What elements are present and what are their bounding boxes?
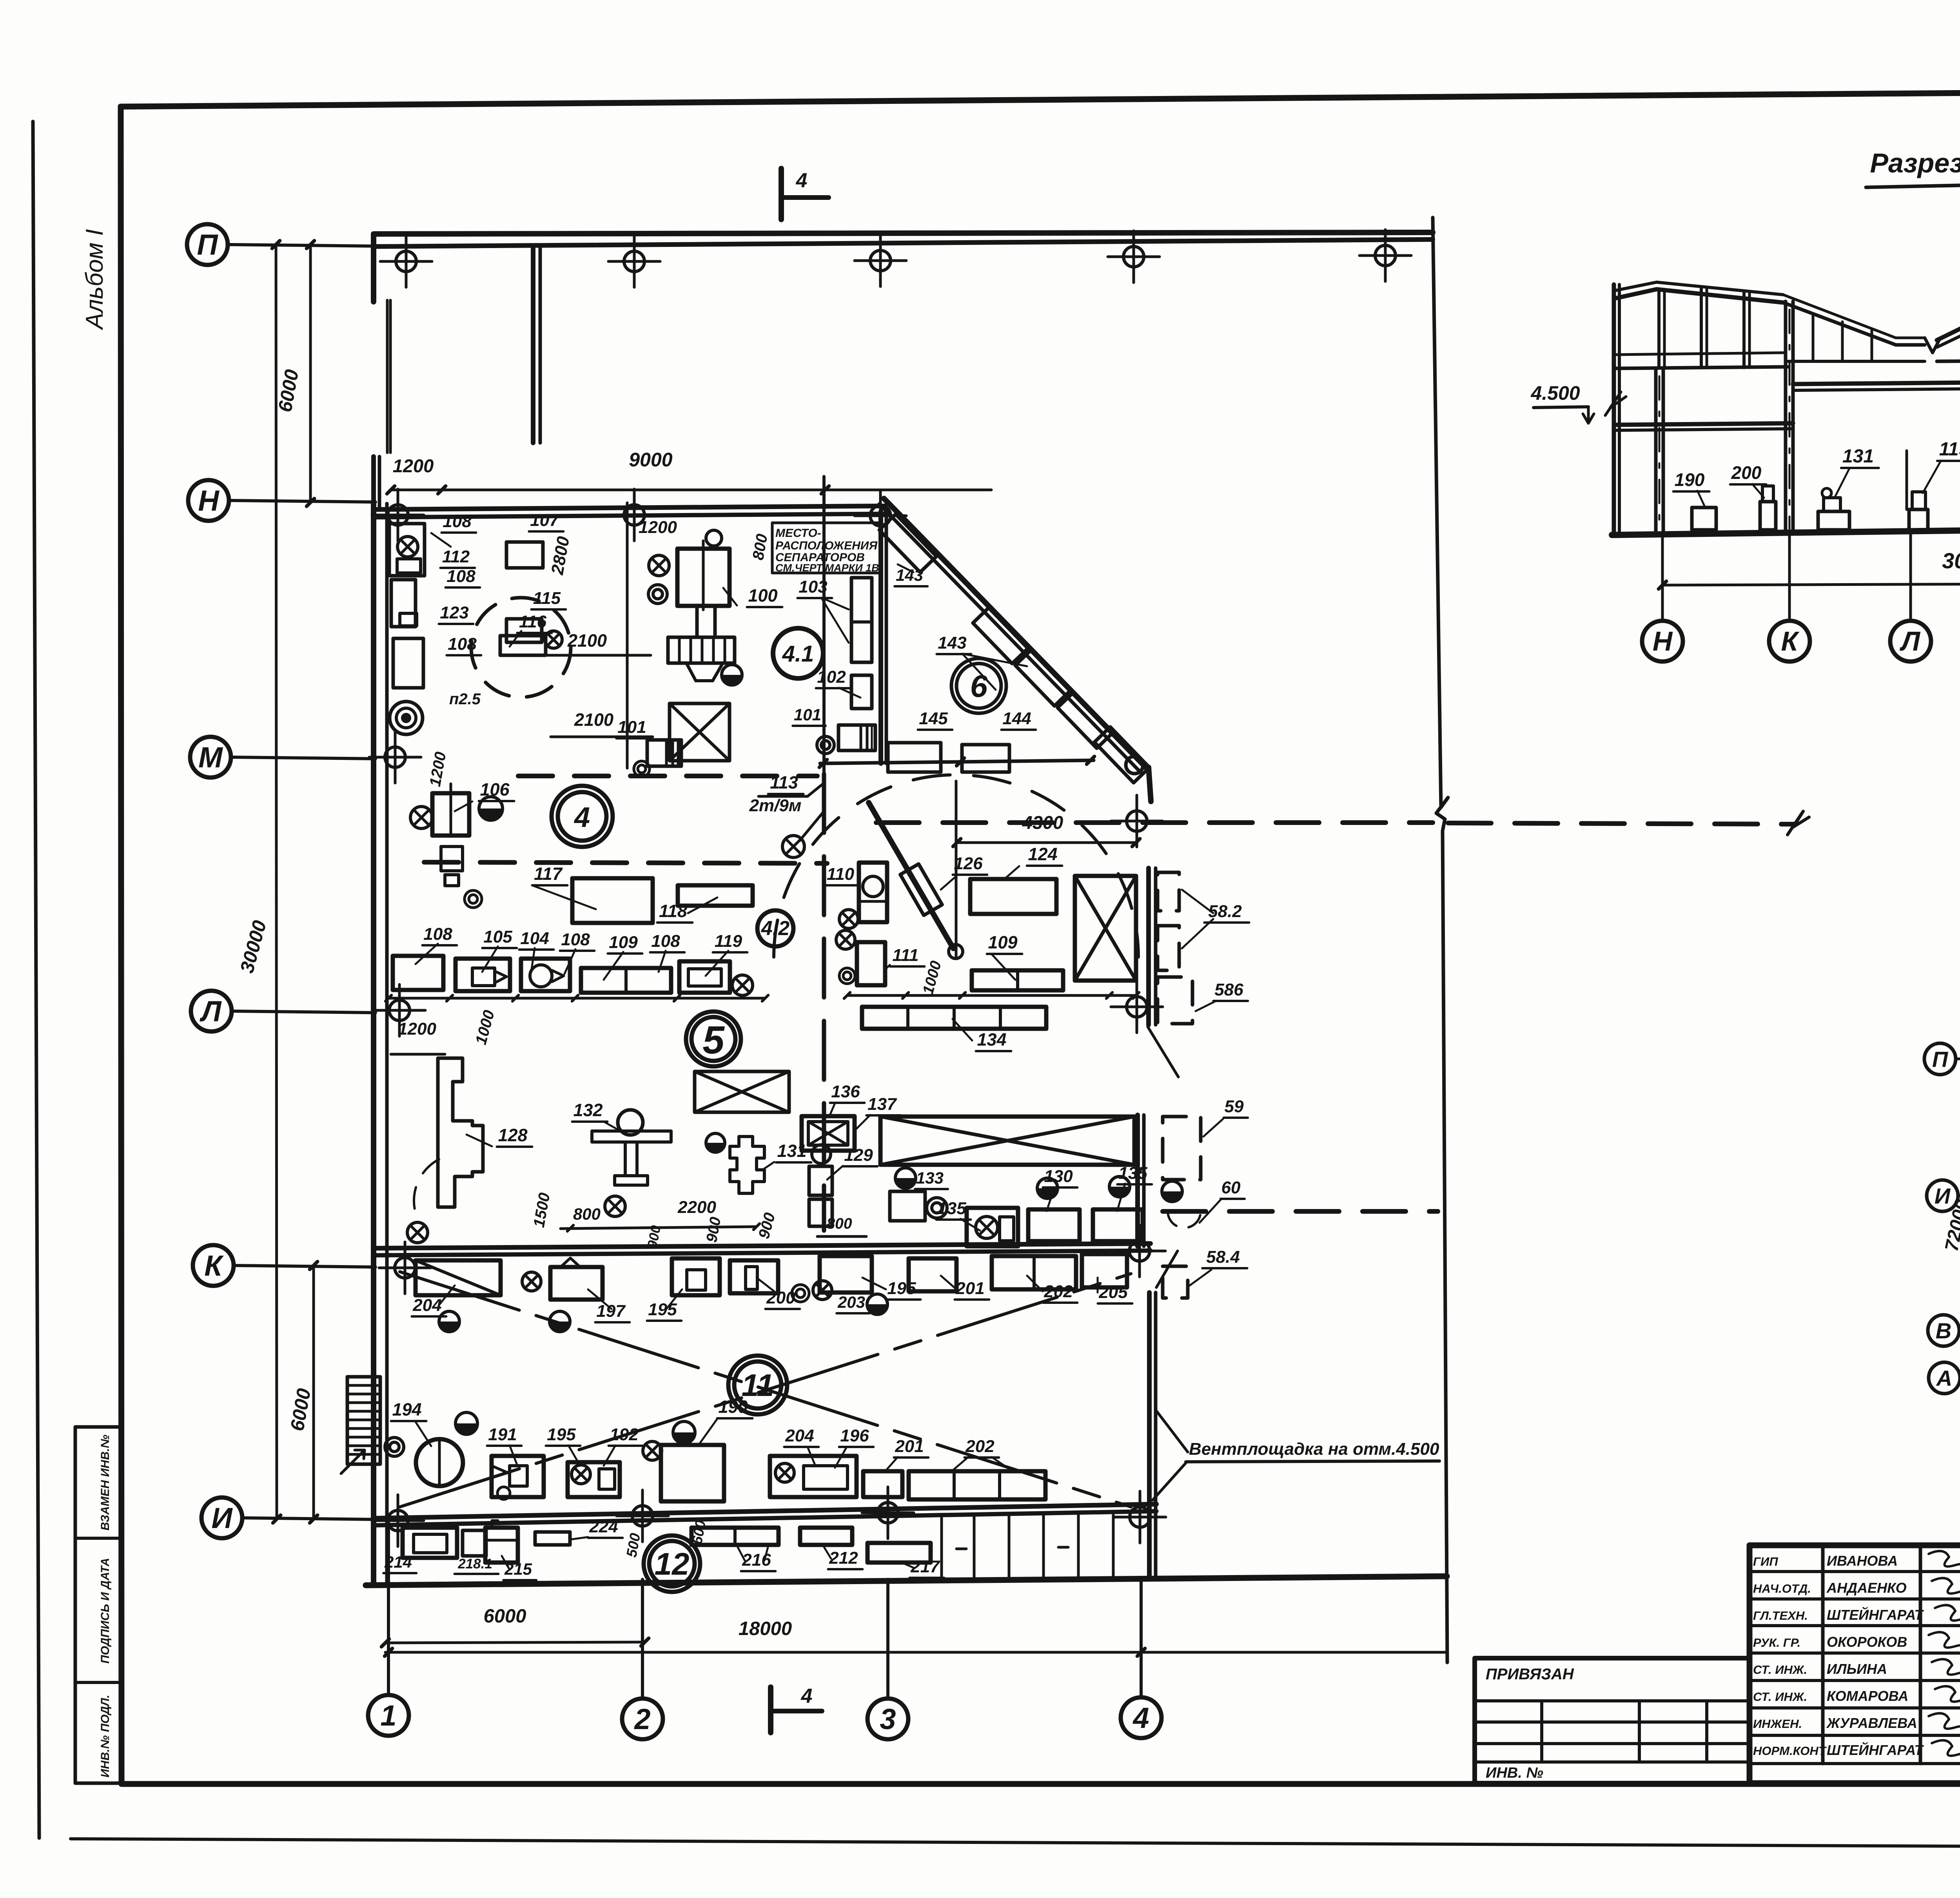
svg-text:135: 135 <box>937 1199 966 1218</box>
half circle mark near 131 <box>706 1133 725 1152</box>
svg-text:Альбом I: Альбом I <box>81 229 108 330</box>
svg-text:И: И <box>1935 1184 1951 1208</box>
svg-text:58.4: 58.4 <box>1206 1247 1240 1267</box>
equipment 215 <box>485 1528 518 1563</box>
svg-text:192: 192 <box>610 1425 639 1444</box>
svg-text:60: 60 <box>1221 1178 1241 1197</box>
frame left border <box>121 107 122 1784</box>
bottom fold line <box>71 1839 1960 1848</box>
svg-text:110: 110 <box>827 865 855 884</box>
vent leader 2 <box>1156 1411 1188 1452</box>
svg-text:109: 109 <box>988 932 1017 952</box>
section equipment 200 <box>1760 502 1776 530</box>
wall left outer upper <box>371 234 376 302</box>
scheme axis circle V <box>1928 1315 1959 1346</box>
equipment row 108 105 104 109 119 <box>393 956 443 990</box>
svg-text:101: 101 <box>794 705 821 724</box>
grid cross <box>1127 811 1147 831</box>
section roof left mullions <box>1657 290 1661 368</box>
svg-text:586: 586 <box>1214 980 1243 999</box>
grid cross P row <box>1123 247 1144 267</box>
svg-text:118: 118 <box>659 901 687 921</box>
wall left thin middle b <box>389 300 392 453</box>
svg-text:2200: 2200 <box>677 1198 716 1217</box>
page outer-left edge line <box>33 121 39 1838</box>
svg-text:ВЗАМЕН ИНВ.№: ВЗАМЕН ИНВ.№ <box>99 1435 112 1530</box>
grid cross P row <box>624 251 644 272</box>
hatched rect on chamfer 143 <box>1058 692 1112 748</box>
svg-text:А: А <box>1936 1366 1952 1390</box>
svg-text:18000: 18000 <box>739 1618 792 1639</box>
break mark on M extension <box>1788 811 1809 835</box>
grid cross <box>632 1506 653 1526</box>
equipment 134 <box>862 1007 1046 1029</box>
svg-text:4: 4 <box>573 802 590 833</box>
separator rect 102 <box>851 675 872 709</box>
wall right segment L-K <box>1135 1115 1140 1246</box>
equipment 201a <box>909 1258 956 1291</box>
dashed rect 58.2a <box>1158 872 1179 911</box>
section column N left <box>1654 369 1658 533</box>
svg-text:190: 190 <box>718 1397 748 1417</box>
room circle 11 <box>728 1356 787 1414</box>
machine 100 marks <box>649 555 669 576</box>
svg-text:1200: 1200 <box>639 518 677 537</box>
section dim 30000 <box>1662 583 1960 585</box>
grid cross P row <box>1375 245 1396 266</box>
room circle 4.1 <box>773 628 823 678</box>
axis line Л <box>232 1011 376 1013</box>
svg-text:4.500: 4.500 <box>1530 382 1580 404</box>
svg-text:П: П <box>197 228 218 261</box>
svg-text:6: 6 <box>970 669 988 703</box>
svg-text:195: 195 <box>648 1300 677 1319</box>
dashed line M extension <box>876 820 1433 825</box>
svg-text:108: 108 <box>561 930 590 949</box>
scheme axis leaders <box>1956 1057 1960 1059</box>
wall top inner <box>374 239 1433 247</box>
svg-text:РУК. ГР.: РУК. ГР. <box>1753 1636 1800 1650</box>
axis circle К <box>193 1245 234 1286</box>
axis circle Л <box>191 991 232 1031</box>
grid cross P row <box>396 251 416 272</box>
equipment 195b <box>820 1256 872 1293</box>
svg-text:МЕСТО-: МЕСТО- <box>775 527 821 540</box>
svg-text:108: 108 <box>443 512 472 531</box>
scheme axis circle A <box>1929 1362 1960 1394</box>
svg-text:201: 201 <box>895 1437 924 1456</box>
xbox long L-K <box>880 1117 1134 1165</box>
svg-text:136: 136 <box>831 1082 860 1101</box>
svg-text:131: 131 <box>1842 446 1874 467</box>
axis circle М <box>190 737 231 778</box>
grid cross <box>388 1510 408 1531</box>
wall left thin middle a <box>386 300 389 453</box>
wash machine 135b <box>1093 1209 1143 1241</box>
equipment 116 rect <box>500 636 546 655</box>
section roof left bottom chord <box>1614 367 1788 368</box>
cut line right <box>1433 218 1448 1662</box>
svg-text:102: 102 <box>817 667 846 687</box>
dashed line y3091 <box>1163 1209 1438 1214</box>
svg-text:134: 134 <box>977 1030 1006 1050</box>
top dim line 1200-9000 <box>391 489 991 491</box>
svg-text:Л: Л <box>1899 626 1921 656</box>
section roof right arch top chord <box>1937 279 1960 340</box>
equipment 123 cabinet <box>391 580 416 627</box>
equipment 202b <box>909 1471 1045 1499</box>
svg-text:КОМАРОВА: КОМАРОВА <box>1827 1688 1908 1704</box>
xbox under 100 <box>670 703 730 761</box>
equipment 132 balancer <box>618 1110 643 1135</box>
svg-text:ИВАНОВА: ИВАНОВА <box>1827 1553 1898 1569</box>
grid cross N row <box>388 505 408 525</box>
svg-text:107: 107 <box>530 511 560 530</box>
dashed arc near 128 <box>414 1159 439 1209</box>
hatched rect on chamfer 143 <box>1015 650 1070 706</box>
dashed rect 58.4 <box>1163 1266 1188 1298</box>
svg-text:В: В <box>1936 1318 1951 1343</box>
svg-text:ИЛЬИНА: ИЛЬИНА <box>1827 1661 1887 1677</box>
svg-text:108: 108 <box>651 932 680 951</box>
svg-text:12: 12 <box>655 1546 690 1581</box>
svg-text:И: И <box>211 1502 233 1534</box>
svg-text:123: 123 <box>440 603 468 622</box>
scheme axis circle P <box>1924 1043 1956 1075</box>
frame bottom border <box>122 1781 1960 1787</box>
equipment 212 <box>800 1528 852 1545</box>
axis line 4 <box>1140 1577 1143 1697</box>
bottom dim line 6000 <box>385 1642 645 1643</box>
window mullions bottom right <box>940 1515 943 1578</box>
vertical dim 4300 reference <box>955 781 958 957</box>
machine 100 funnel <box>686 663 723 681</box>
svg-text:2: 2 <box>633 1703 650 1735</box>
hatched rect on chamfer 143a <box>879 514 936 572</box>
machine 100 comb base <box>668 637 735 663</box>
equipment 190 <box>661 1445 724 1501</box>
svg-text:119: 119 <box>1939 439 1960 460</box>
section roof left block top chord <box>1614 289 1783 303</box>
section break mark left <box>1605 392 1626 415</box>
equipment 217 <box>867 1543 931 1563</box>
axis circle Н <box>188 480 229 521</box>
svg-text:800: 800 <box>573 1205 601 1223</box>
svg-text:214: 214 <box>384 1553 412 1571</box>
dim line under row <box>388 997 765 1000</box>
svg-text:АНДАЕНКО: АНДАЕНКО <box>1826 1580 1907 1596</box>
svg-text:204: 204 <box>412 1296 441 1315</box>
svg-text:ШТЕЙНГАРАТ: ШТЕЙНГАРАТ <box>1827 1606 1924 1623</box>
wall left outer lower <box>371 504 376 1585</box>
svg-text:59: 59 <box>1225 1097 1244 1116</box>
svg-text:3: 3 <box>880 1703 896 1735</box>
section equipment 119 <box>1909 509 1928 530</box>
svg-text:143: 143 <box>938 633 966 653</box>
wall chamfer inner <box>879 504 1142 774</box>
svg-text:1: 1 <box>380 1699 396 1732</box>
svg-text:Н: Н <box>198 484 220 517</box>
chamfer end circle <box>1126 756 1143 774</box>
svg-text:П: П <box>1932 1047 1949 1071</box>
section mezzanine floor 4.500 <box>1614 423 1793 425</box>
axis circle 4 <box>1121 1697 1161 1738</box>
grid cross N row <box>870 506 891 526</box>
svg-text:ЖУРАВЛЕВА: ЖУРАВЛЕВА <box>1826 1715 1917 1731</box>
room circle 12 <box>644 1535 700 1592</box>
svg-text:106: 106 <box>480 780 510 799</box>
svg-text:202: 202 <box>1044 1282 1073 1301</box>
svg-text:ИНЖЕН.: ИНЖЕН. <box>1753 1717 1802 1731</box>
svg-text:ПРИВЯЗАН: ПРИВЯЗАН <box>1486 1666 1574 1683</box>
machine 100 head <box>677 549 730 606</box>
svg-text:п2.5: п2.5 <box>449 691 481 708</box>
axis line 1 <box>387 1523 390 1695</box>
section equipment 190 <box>1692 508 1716 530</box>
section crane beam <box>1793 381 1960 384</box>
titleblock names column lines <box>1821 1545 1825 1764</box>
axis circle 3 <box>867 1699 908 1739</box>
axis line Н <box>229 500 376 502</box>
wall top outer <box>374 232 1433 234</box>
svg-text:135: 135 <box>1118 1164 1147 1183</box>
axis line И <box>242 1518 376 1519</box>
svg-text:195: 195 <box>547 1425 576 1444</box>
dim 4300 <box>957 841 1136 844</box>
section axis lines and circles <box>1661 534 1664 621</box>
floor drain rings <box>390 702 423 734</box>
section mark top <box>779 169 784 219</box>
equipment 136 box <box>802 1116 855 1151</box>
equipment 107 <box>506 542 543 568</box>
vertical dim line 30000 <box>276 245 277 1519</box>
svg-text:Разрез 4-4: Разрез 4-4 <box>1870 148 1960 178</box>
svg-text:197: 197 <box>596 1302 626 1321</box>
equipment 201b <box>863 1471 902 1497</box>
equipment 224 <box>535 1532 570 1545</box>
svg-text:201: 201 <box>955 1279 984 1298</box>
monorail end mark <box>782 836 804 857</box>
axis line М <box>231 757 376 759</box>
text box mesto raspolozheniya <box>772 523 880 573</box>
grid cross P row <box>870 250 891 271</box>
axis line 2 <box>641 1579 644 1699</box>
grid cross <box>878 1503 898 1523</box>
partition thin line room2 <box>626 503 629 768</box>
vent leader 1 <box>1152 1463 1186 1500</box>
jack 126 arm <box>869 803 953 948</box>
svg-text:1200: 1200 <box>398 1019 436 1039</box>
wash machine 135a <box>967 1208 1018 1246</box>
room circle 4.2 <box>757 910 793 946</box>
room 4.1 bottom line <box>820 760 1094 763</box>
equipment 216 <box>691 1528 779 1545</box>
dashed rect 586 <box>1158 977 1192 1024</box>
room circle 5 <box>686 1012 741 1066</box>
svg-text:4.1: 4.1 <box>782 641 814 667</box>
bottom dim line 18000 <box>385 1651 1447 1654</box>
svg-text:202: 202 <box>965 1437 995 1456</box>
equipment 115 <box>506 619 542 642</box>
svg-text:190: 190 <box>1675 470 1705 490</box>
svg-text:117: 117 <box>534 864 563 884</box>
vertical dim line 6000 P-N <box>309 245 312 502</box>
svg-text:204: 204 <box>785 1426 814 1445</box>
wall chamfer outer <box>884 499 1147 768</box>
svg-text:800: 800 <box>826 1215 852 1232</box>
svg-text:200: 200 <box>1731 462 1762 483</box>
inventory stamp box <box>75 1427 122 1783</box>
wall left inner lower <box>385 504 389 1583</box>
wall axis I <box>374 1504 1156 1518</box>
room circle 6 <box>951 658 1006 713</box>
equipment 194 tank <box>416 1439 463 1486</box>
svg-text:191: 191 <box>488 1425 517 1444</box>
equipment 117 <box>572 878 653 923</box>
svg-text:М: М <box>198 741 223 774</box>
svg-text:4: 4 <box>1132 1702 1149 1734</box>
svg-text:111: 111 <box>893 946 919 965</box>
dashed line y2200 <box>424 862 827 863</box>
equipment 118 <box>678 885 753 906</box>
leader lines right wall <box>1148 1027 1178 1077</box>
axis line П <box>228 245 376 246</box>
staircase <box>347 1377 380 1464</box>
svg-text:108: 108 <box>423 925 452 944</box>
grid cross <box>1129 1241 1150 1261</box>
equipment 129 <box>809 1166 832 1195</box>
axis circle П <box>187 224 228 265</box>
equipment 108 cabinet <box>393 638 423 688</box>
grid cross <box>395 1258 415 1278</box>
equipment 145 <box>888 743 941 772</box>
svg-text:128: 128 <box>498 1125 527 1145</box>
grid cross <box>385 747 405 767</box>
section ground line <box>1612 525 1960 535</box>
svg-text:К: К <box>204 1249 224 1282</box>
svg-text:224: 224 <box>589 1517 618 1536</box>
svg-text:144: 144 <box>1002 709 1031 728</box>
equipment 200 <box>730 1260 778 1293</box>
machine 100 stem <box>697 606 715 637</box>
svg-text:30000: 30000 <box>1942 548 1960 573</box>
svg-text:203: 203 <box>837 1293 865 1311</box>
wall axis K <box>374 1244 1151 1248</box>
equipment 203 marks <box>792 1285 809 1302</box>
equipment 197 <box>550 1267 603 1300</box>
svg-text:101: 101 <box>617 718 646 737</box>
axis line 3 <box>886 1579 889 1699</box>
equipment 133 <box>890 1191 925 1221</box>
vertical dim line 6000 K-I <box>312 1265 315 1519</box>
equipment 101 <box>647 740 681 766</box>
svg-text:2100: 2100 <box>567 631 607 651</box>
svg-text:ИНВ.№ ПОДЛ.: ИНВ.№ ПОДЛ. <box>99 1695 112 1777</box>
grid cross N row <box>624 505 644 525</box>
privyazan grid <box>1475 1699 1749 1702</box>
xbox right M-L <box>1075 876 1136 981</box>
svg-text:103: 103 <box>799 577 827 596</box>
svg-text:4.2: 4.2 <box>761 917 789 940</box>
svg-text:133: 133 <box>916 1169 944 1187</box>
equipment 144 <box>962 745 1009 772</box>
svg-text:5: 5 <box>702 1018 725 1062</box>
grid cross <box>389 1000 410 1021</box>
partition wall x1360 <box>531 247 535 443</box>
wall left pier <box>371 457 376 509</box>
svg-text:109: 109 <box>609 933 638 952</box>
cross brace line 2 <box>400 1274 1131 1507</box>
wall right segment M-L <box>1146 868 1151 1025</box>
section mid roof <box>1783 303 1925 345</box>
svg-text:124: 124 <box>1028 844 1057 864</box>
svg-text:100: 100 <box>748 586 777 605</box>
svg-text:132: 132 <box>573 1100 603 1120</box>
svg-text:4300: 4300 <box>1022 812 1063 833</box>
svg-text:212: 212 <box>829 1548 858 1568</box>
axis circle И <box>201 1497 242 1538</box>
chamfer end wall piece <box>1149 767 1151 801</box>
svg-text:119: 119 <box>715 932 742 951</box>
equipment 109 right <box>972 970 1063 990</box>
equipment 205 <box>1082 1254 1127 1287</box>
wall right segment K-bottom <box>1147 1293 1152 1579</box>
section mark bottom <box>768 1687 773 1733</box>
equipment 202a <box>992 1256 1076 1289</box>
axis circle 2 <box>622 1699 663 1739</box>
svg-text:126: 126 <box>954 854 983 873</box>
svg-text:Вентплощадка на отм.4.500: Вентплощадка на отм.4.500 <box>1189 1439 1439 1459</box>
wash machine 130 <box>1028 1209 1080 1241</box>
hatched rect on chamfer 143 <box>1094 727 1149 783</box>
svg-text:115: 115 <box>533 589 561 608</box>
axis circle 1 <box>368 1695 409 1736</box>
svg-text:205: 205 <box>1098 1283 1128 1302</box>
svg-text:Н: Н <box>1653 626 1673 656</box>
svg-text:ИНВ. №: ИНВ. № <box>1486 1765 1543 1781</box>
svg-text:112: 112 <box>442 547 470 566</box>
frame top border <box>121 89 1960 107</box>
svg-text:РАСПОЛОЖЕНИЯ: РАСПОЛОЖЕНИЯ <box>775 539 878 552</box>
dashed swing arc 4300 <box>774 775 1138 957</box>
xbox room5 <box>695 1071 789 1112</box>
svg-text:195: 195 <box>887 1279 916 1298</box>
dashed half circle 60 <box>1168 1211 1201 1228</box>
dim line M-L right <box>847 994 1136 997</box>
leader 116 <box>510 631 521 647</box>
svg-text:113: 113 <box>770 772 798 792</box>
svg-text:105: 105 <box>483 927 512 946</box>
equipment 110 <box>859 863 887 922</box>
section roof right bottom chord <box>1937 359 1960 361</box>
scheme axis circle I <box>1927 1180 1958 1211</box>
section left windows sill <box>1614 353 1783 355</box>
svg-text:194: 194 <box>392 1399 421 1419</box>
grid cross <box>1130 1507 1150 1527</box>
svg-text:ГЛ.ТЕХН.: ГЛ.ТЕХН. <box>1753 1609 1808 1622</box>
separator rect 103 <box>851 578 872 662</box>
svg-text:137: 137 <box>867 1095 897 1114</box>
hatched rect on chamfer 143 <box>973 608 1028 663</box>
equipment 128 stepped outline <box>438 1058 483 1207</box>
svg-text:145: 145 <box>919 709 948 728</box>
svg-text:116: 116 <box>519 612 547 631</box>
svg-text:ШТЕЙНГАРАТ: ШТЕЙНГАРАТ <box>1827 1742 1924 1758</box>
dashed line M extension beyond cut <box>1448 823 1795 824</box>
room circle 4 <box>552 786 613 847</box>
equipment 214 <box>403 1528 457 1558</box>
equipment 111 <box>857 942 885 985</box>
